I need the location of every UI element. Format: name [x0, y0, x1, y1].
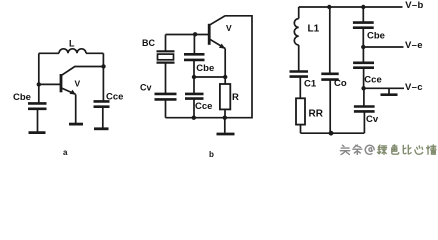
- svg-text:L: L: [69, 39, 75, 49]
- svg-text:Cbe: Cbe: [13, 92, 31, 103]
- svg-text:Cbe: Cbe: [196, 63, 214, 74]
- svg-text:RR: RR: [309, 109, 324, 120]
- svg-text:Cv: Cv: [140, 83, 152, 93]
- svg-text:V: V: [75, 79, 81, 89]
- svg-text:L1: L1: [308, 24, 320, 35]
- svg-text:Cv: Cv: [366, 114, 379, 125]
- svg-text:V–e: V–e: [405, 40, 423, 51]
- svg-text:Cce: Cce: [106, 92, 123, 103]
- svg-text:Cce: Cce: [364, 75, 381, 86]
- svg-text:R: R: [232, 92, 239, 103]
- svg-text:V: V: [226, 23, 232, 33]
- svg-text:a: a: [63, 148, 68, 157]
- svg-text:b: b: [209, 150, 214, 158]
- svg-text:BC: BC: [142, 38, 155, 48]
- svg-text:Co: Co: [334, 78, 347, 89]
- svg-text:Cce: Cce: [195, 101, 212, 112]
- svg-text:C1: C1: [304, 79, 317, 90]
- svg-text:Cbe: Cbe: [367, 31, 385, 42]
- svg-text:V–b: V–b: [405, 0, 423, 11]
- svg-text:V–c: V–c: [405, 82, 423, 93]
